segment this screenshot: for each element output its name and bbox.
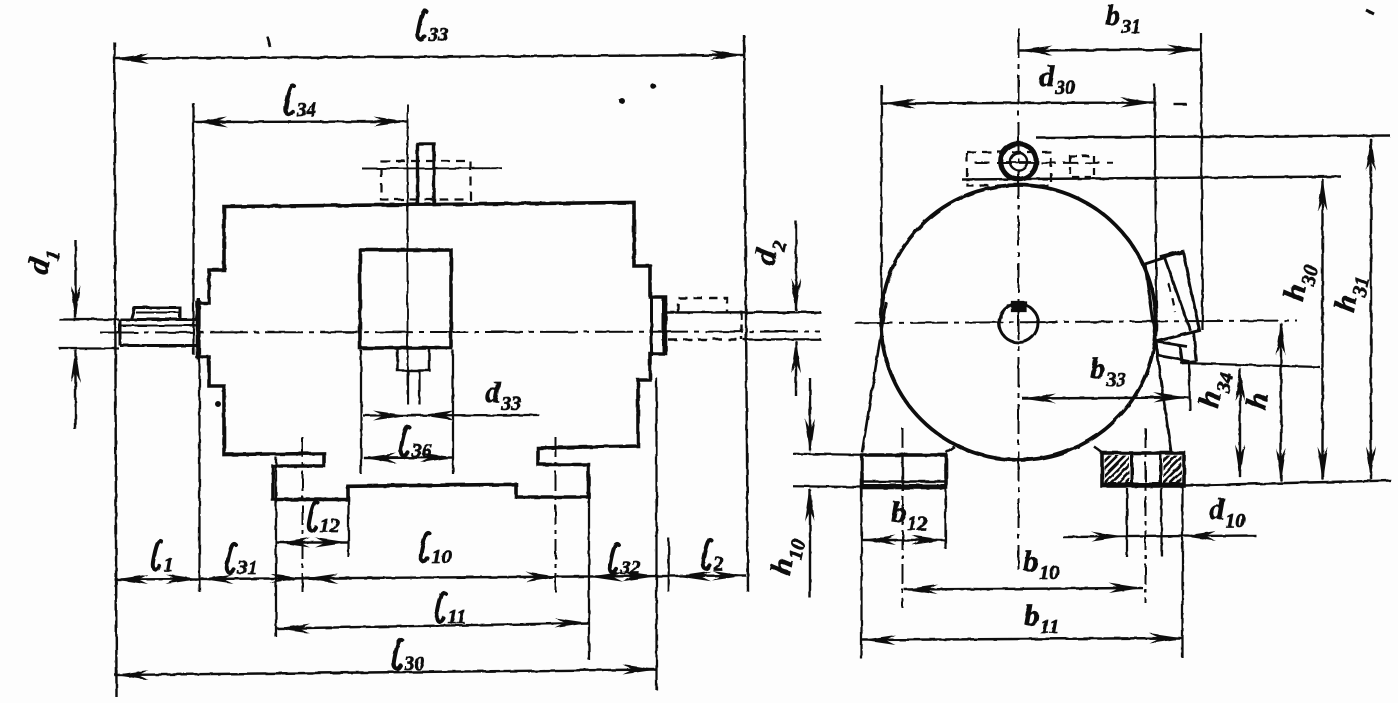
frame right inner slant	[1094, 447, 1102, 453]
h31 extension line	[1036, 136, 1390, 138]
terminal box flange (end view)	[1156, 331, 1197, 363]
dimension h10	[764, 378, 815, 598]
extension line foot pad rear edge	[347, 499, 349, 557]
section hatching of right foot	[1073, 455, 1213, 486]
base plane extension (left)	[793, 485, 864, 488]
extension line at motor front face (lower)	[198, 300, 200, 592]
stator frame circle (end view)	[881, 185, 1156, 460]
svg-text:32: 32	[620, 557, 641, 579]
dimension d10	[1063, 493, 1256, 542]
svg-text:10: 10	[432, 546, 452, 568]
h34 extension line	[1180, 363, 1320, 367]
vertical centerline (end view)	[1018, 28, 1020, 570]
b31 extension line	[1201, 33, 1203, 330]
dimension h34	[1192, 367, 1245, 479]
svg-text:1: 1	[164, 554, 174, 576]
frame top line and h30 extension	[962, 177, 1341, 180]
svg-text:31: 31	[237, 557, 258, 579]
terminal box (end view)	[1145, 252, 1200, 342]
motor body outline (side view)	[198, 203, 666, 500]
cable gland boss	[398, 348, 430, 371]
extension line at rear shaft end	[744, 35, 748, 592]
dimension l33	[115, 11, 745, 64]
rear foot hole centerline	[555, 437, 557, 592]
shaft keyway (end view)	[1012, 302, 1026, 311]
frame left slant	[862, 302, 886, 453]
rear shaft end (dashed)	[666, 312, 822, 339]
dimension h	[1240, 322, 1286, 483]
foot outer edge extension lines	[862, 486, 1183, 659]
eyebolt ring inner	[1010, 153, 1027, 170]
lifting lug (side view)	[418, 144, 435, 205]
rear shaft key (dashed)	[678, 298, 727, 313]
base plane extension (right)	[1184, 481, 1391, 486]
dimension l30	[115, 640, 657, 680]
dimension b33	[1022, 352, 1189, 404]
eyebolt axis line (side view)	[362, 167, 502, 169]
label l32	[610, 544, 641, 579]
eyebolt cross line	[1006, 161, 1031, 163]
dimension b31	[1019, 0, 1202, 56]
horizontal centerline (end view)	[855, 321, 1297, 324]
dimension l34	[194, 86, 408, 127]
left foot hole centerline (end view)	[902, 428, 904, 608]
dimension d1	[21, 240, 119, 430]
dimension l36	[363, 427, 455, 463]
frame right slant	[1154, 328, 1172, 454]
eyebolt axis dashes	[975, 162, 1113, 164]
cable entry hole d33	[408, 371, 420, 405]
eyebolt ring	[1001, 144, 1037, 180]
eyebolt boss hidden outline (end view)	[967, 152, 1051, 186]
dimension l11	[276, 593, 589, 634]
scan specks	[216, 10, 1374, 406]
left foot (end view)	[862, 455, 946, 488]
svg-text:34: 34	[296, 99, 317, 121]
foot hole edge extension lines	[1127, 488, 1162, 557]
dimension l12	[276, 502, 349, 548]
dimension h31	[1328, 137, 1376, 481]
svg-text:30: 30	[404, 653, 425, 675]
extension line rear foot pad edge	[588, 489, 590, 660]
svg-text:33: 33	[428, 24, 449, 46]
label l2	[703, 540, 724, 575]
label l31	[227, 544, 258, 579]
svg-text:2: 2	[713, 553, 724, 575]
front shaft end	[120, 320, 197, 346]
terminal box wall extension lines	[361, 350, 453, 474]
b33 extension line	[1189, 362, 1190, 411]
label l1	[153, 541, 174, 576]
dimension b11	[862, 599, 1184, 645]
foot top extension line (left)	[793, 454, 862, 455]
dimension d30	[882, 60, 1155, 109]
extension line at motor front face (upper)	[192, 103, 194, 355]
terminal box (side view)	[360, 250, 451, 348]
dimension b10	[904, 545, 1143, 595]
dimension chain line l1 l31 l10 l32 l2	[115, 571, 747, 585]
dimension d33	[363, 376, 539, 421]
d30 extension lines	[882, 84, 1157, 309]
dimension h30	[1277, 177, 1327, 481]
stray tick near d30	[1174, 103, 1187, 105]
extension line rear shaft shoulder	[668, 538, 670, 592]
shaft hole (end view)	[999, 304, 1038, 343]
extension line at front shaft end	[115, 42, 117, 697]
terminal box center axis	[407, 104, 409, 404]
dimension b12	[862, 496, 946, 545]
extension line foot pad front edge	[275, 457, 277, 637]
shaft key (front)	[131, 308, 180, 320]
right foot (end view, sectioned)	[1102, 453, 1184, 486]
eyebolt boss hidden outline (side view)	[381, 161, 471, 200]
eyebolt boss hidden bracket	[1070, 156, 1094, 177]
shaft axis centerline (side view)	[100, 332, 820, 333]
frame left inner slant	[946, 447, 955, 453]
svg-text:36: 36	[411, 440, 432, 462]
right foot hole centerline (end view)	[1145, 428, 1147, 603]
extension line motor rear face	[655, 378, 657, 690]
label l10	[421, 533, 452, 568]
front foot hole centerline	[302, 437, 304, 592]
svg-text:11: 11	[448, 606, 467, 628]
dimension d2	[748, 221, 801, 396]
svg-text:12: 12	[320, 515, 340, 537]
